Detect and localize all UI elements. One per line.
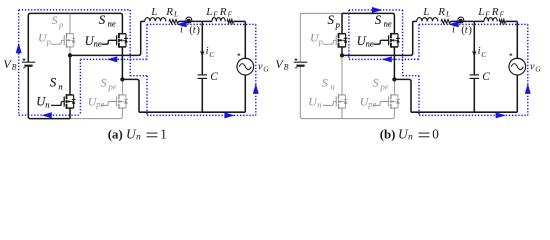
wire load return rail (b) — [411, 111, 517, 113]
wire top rail leg1-to-leg2 (b) — [342, 13, 394, 33]
wire leg1 upper (Sp branch) (a) — [69, 13, 71, 55]
inductor LF (b) — [484, 18, 497, 22]
inductor L (a) — [145, 18, 166, 22]
label Spe (b) — [373, 76, 389, 92]
svg-text:L: L — [173, 10, 178, 19]
wire VB bottom column + bottom rail left (a) — [28, 67, 70, 119]
battery VB (b) — [294, 58, 307, 68]
wire leg1 midpoint to filter input (a) — [70, 21, 141, 55]
svg-text:F: F — [212, 10, 218, 19]
label Sne (a) — [99, 12, 116, 28]
svg-text:ne: ne — [384, 18, 392, 28]
source vG (a) — [237, 58, 254, 75]
svg-text:C: C — [210, 71, 218, 83]
svg-text:pe: pe — [108, 82, 117, 92]
wire vG top (a) — [244, 21, 246, 58]
label RL (a) — [165, 6, 178, 19]
svg-text:ne: ne — [366, 38, 374, 48]
node leg2 midpoint (a) — [120, 77, 124, 81]
svg-text:B: B — [12, 62, 17, 71]
svg-text:i: i — [478, 46, 481, 57]
svg-text:F: F — [499, 10, 505, 19]
plus sign vG (b) — [510, 53, 513, 56]
label RL (b) — [437, 6, 450, 19]
svg-text:L: L — [477, 6, 484, 18]
label vG (b) — [530, 62, 541, 74]
wire load return rail (a) — [139, 111, 245, 113]
svg-text:ne: ne — [108, 18, 116, 28]
wire leg2 lower (Spe branch) (b) — [393, 79, 395, 95]
wire leg1 lower (Sn branch) (a) — [69, 55, 71, 118]
svg-text:i: i — [180, 25, 183, 36]
svg-text:F: F — [484, 10, 490, 19]
wire leg1 upper (Sp branch) (b) — [341, 13, 343, 55]
svg-text:ne: ne — [94, 38, 102, 48]
label Sn (a) — [50, 75, 63, 92]
current arrow up at VB (a) — [16, 43, 22, 53]
current arrow left at mid wire (a) — [107, 56, 117, 62]
resistor RL (a) — [169, 20, 178, 24]
transistor Sn (b) — [323, 94, 348, 109]
capacitor C (a) — [198, 75, 207, 79]
svg-text:1: 1 — [160, 127, 167, 142]
svg-text:L: L — [150, 6, 157, 18]
svg-text:S: S — [52, 13, 58, 27]
label vG (a) — [258, 62, 269, 74]
wire vG bottom (b) — [516, 75, 518, 112]
svg-text:v: v — [258, 62, 263, 73]
svg-text:B: B — [284, 62, 289, 71]
svg-text:p: p — [46, 36, 51, 46]
current arrow left at bridge bottom (a) — [42, 112, 52, 118]
transistor Sne (b) — [373, 33, 400, 48]
current probe node i(t) (a) — [186, 17, 192, 23]
current arrow iC (b) — [472, 43, 476, 57]
caption (a) — [108, 127, 167, 143]
svg-text:i: i — [452, 25, 455, 36]
svg-text:n: n — [136, 133, 141, 143]
node leg1 midpoint (a) — [68, 53, 72, 57]
current arrow right at load bottom (b) — [496, 112, 506, 118]
label Upe gate signal (a) — [88, 94, 105, 109]
label i (t) (b) — [452, 24, 472, 36]
svg-text:S: S — [99, 12, 106, 27]
resistor RF (a) — [227, 20, 233, 24]
current path loop (a) : dotted conduction loop — [19, 10, 256, 116]
label Sp (a) — [52, 13, 64, 29]
inductor LF (a) — [212, 18, 225, 22]
current arrow right at top (b) — [372, 7, 382, 13]
current arrow right at load bottom (a) — [224, 112, 234, 118]
svg-text:n: n — [408, 133, 413, 143]
source vG (b) — [509, 58, 526, 75]
label Une gate signal (b) — [357, 34, 374, 48]
caption (b) — [380, 127, 439, 143]
plus sign vG (a) — [238, 53, 241, 56]
label RF (b) — [491, 6, 505, 19]
transistor Sn (a) — [51, 94, 76, 109]
svg-text:L: L — [445, 10, 450, 19]
svg-text:G: G — [263, 65, 269, 74]
transistor Sp (a) — [51, 33, 76, 48]
label Sn (b) — [322, 76, 335, 92]
label VB (b) — [275, 57, 288, 71]
wire bottom rail leg1-to-leg2 (b) — [342, 108, 394, 119]
svg-text:v: v — [530, 62, 535, 73]
wire capacitor branch (b) — [473, 21, 475, 112]
label iC (a) — [206, 46, 216, 59]
label Up gate signal (b) — [310, 31, 323, 47]
transistor Spe (a) — [101, 94, 128, 109]
wire top rail leg1-to-leg2 (a) — [70, 13, 122, 33]
svg-text:n: n — [330, 82, 334, 92]
label iC (b) — [478, 46, 488, 59]
wire leg2 midpoint to return rail (b) — [394, 79, 411, 112]
capacitor C (b) — [470, 75, 479, 79]
wire vG top (b) — [516, 21, 518, 58]
svg-text:R: R — [165, 6, 173, 18]
svg-text:0: 0 — [432, 127, 439, 142]
svg-text:p: p — [335, 19, 340, 29]
label LF (a) — [205, 6, 218, 19]
wire vG bottom (a) — [244, 75, 246, 112]
label LF (b) — [477, 6, 490, 19]
svg-text:pe: pe — [380, 82, 389, 92]
svg-text:): ) — [468, 24, 472, 36]
wire bottom rail leg1-to-leg2 (a) — [70, 108, 122, 119]
svg-text:p: p — [58, 19, 63, 29]
svg-text:pe: pe — [367, 99, 376, 109]
svg-text:n: n — [317, 100, 321, 110]
inductor L (b) — [417, 18, 438, 22]
svg-text:R: R — [219, 6, 227, 18]
svg-text:S: S — [375, 12, 382, 27]
svg-text:L: L — [205, 6, 212, 18]
node leg2 midpoint (b) — [392, 77, 396, 81]
svg-text:S: S — [328, 12, 335, 27]
label Upe gate signal (b) — [360, 94, 377, 109]
label Up gate signal (a) — [38, 31, 51, 47]
wire filter rail segments (b) — [413, 20, 518, 22]
battery VB (a) — [22, 58, 35, 68]
current arrow left at filter top (a) — [176, 21, 186, 27]
svg-text:R: R — [437, 6, 445, 18]
transistor Spe (b) — [373, 94, 400, 109]
transistor Sne (a) — [101, 33, 128, 48]
wire filter rail segments (a) — [141, 20, 246, 22]
current probe node i(t) (b) — [458, 17, 464, 23]
node leg1 midpoint (b) — [340, 53, 344, 57]
label RF (a) — [219, 6, 233, 19]
current arrow up at vG (a) — [253, 84, 259, 94]
svg-text:S: S — [50, 75, 57, 90]
svg-text:p: p — [318, 36, 323, 46]
transistor Sp (b) — [323, 33, 348, 48]
wire leg2 midpoint to return rail (a) — [122, 79, 139, 112]
svg-text:): ) — [196, 24, 200, 36]
wire leg1 lower (Sn branch) (b) — [341, 55, 343, 118]
wire top rail VB-to-leg1 (a) — [28, 13, 70, 62]
label Un gate signal (a) — [36, 94, 49, 109]
wire leg2 upper (Sne branch) (a) — [121, 47, 123, 80]
wire leg2 lower (Spe branch) (a) — [121, 79, 123, 95]
svg-text:S: S — [373, 76, 379, 90]
wire VB bottom column + bottom rail left (b) — [300, 67, 342, 119]
label Un gate signal (b) — [308, 94, 321, 109]
svg-text:S: S — [322, 76, 328, 90]
svg-text:(a): (a) — [108, 128, 123, 142]
svg-text:R: R — [491, 6, 499, 18]
label L (b) — [422, 6, 429, 18]
label i (t) (a) — [180, 24, 200, 36]
wire leg2 upper (Sne branch) (b) — [393, 47, 395, 80]
resistor RL (b) — [441, 20, 450, 24]
svg-text:L: L — [422, 6, 429, 18]
label C (b) — [482, 71, 490, 83]
svg-text:pe: pe — [95, 99, 104, 109]
svg-text:i: i — [206, 46, 209, 57]
current arrow iC (a) — [200, 43, 204, 57]
current arrow left at mid wire (b) — [382, 56, 392, 62]
svg-text:C: C — [482, 71, 490, 83]
wire capacitor branch (a) — [201, 21, 203, 112]
label Sne (b) — [375, 12, 392, 28]
current arrow up at vG (b) — [525, 84, 531, 94]
wire leg1 midpoint to filter input (b) — [342, 21, 413, 55]
svg-text:G: G — [535, 65, 541, 74]
resistor RF (b) — [499, 20, 505, 24]
svg-text:n: n — [58, 82, 62, 92]
svg-text:S: S — [101, 76, 107, 90]
svg-text:F: F — [227, 10, 233, 19]
wire top rail VB-to-leg1 (b) — [300, 13, 342, 62]
label Sp (b) — [328, 12, 340, 29]
current path loop (b) : dotted freewheeling loop — [349, 10, 528, 115]
label VB (a) — [3, 57, 16, 71]
svg-text:n: n — [45, 100, 49, 110]
label C (a) — [210, 71, 218, 83]
current arrow left at filter top (b) — [448, 21, 458, 27]
label L (a) — [150, 6, 157, 18]
label Spe (a) — [101, 76, 117, 92]
svg-text:(b): (b) — [380, 128, 396, 142]
label Une gate signal (a) — [85, 34, 102, 48]
